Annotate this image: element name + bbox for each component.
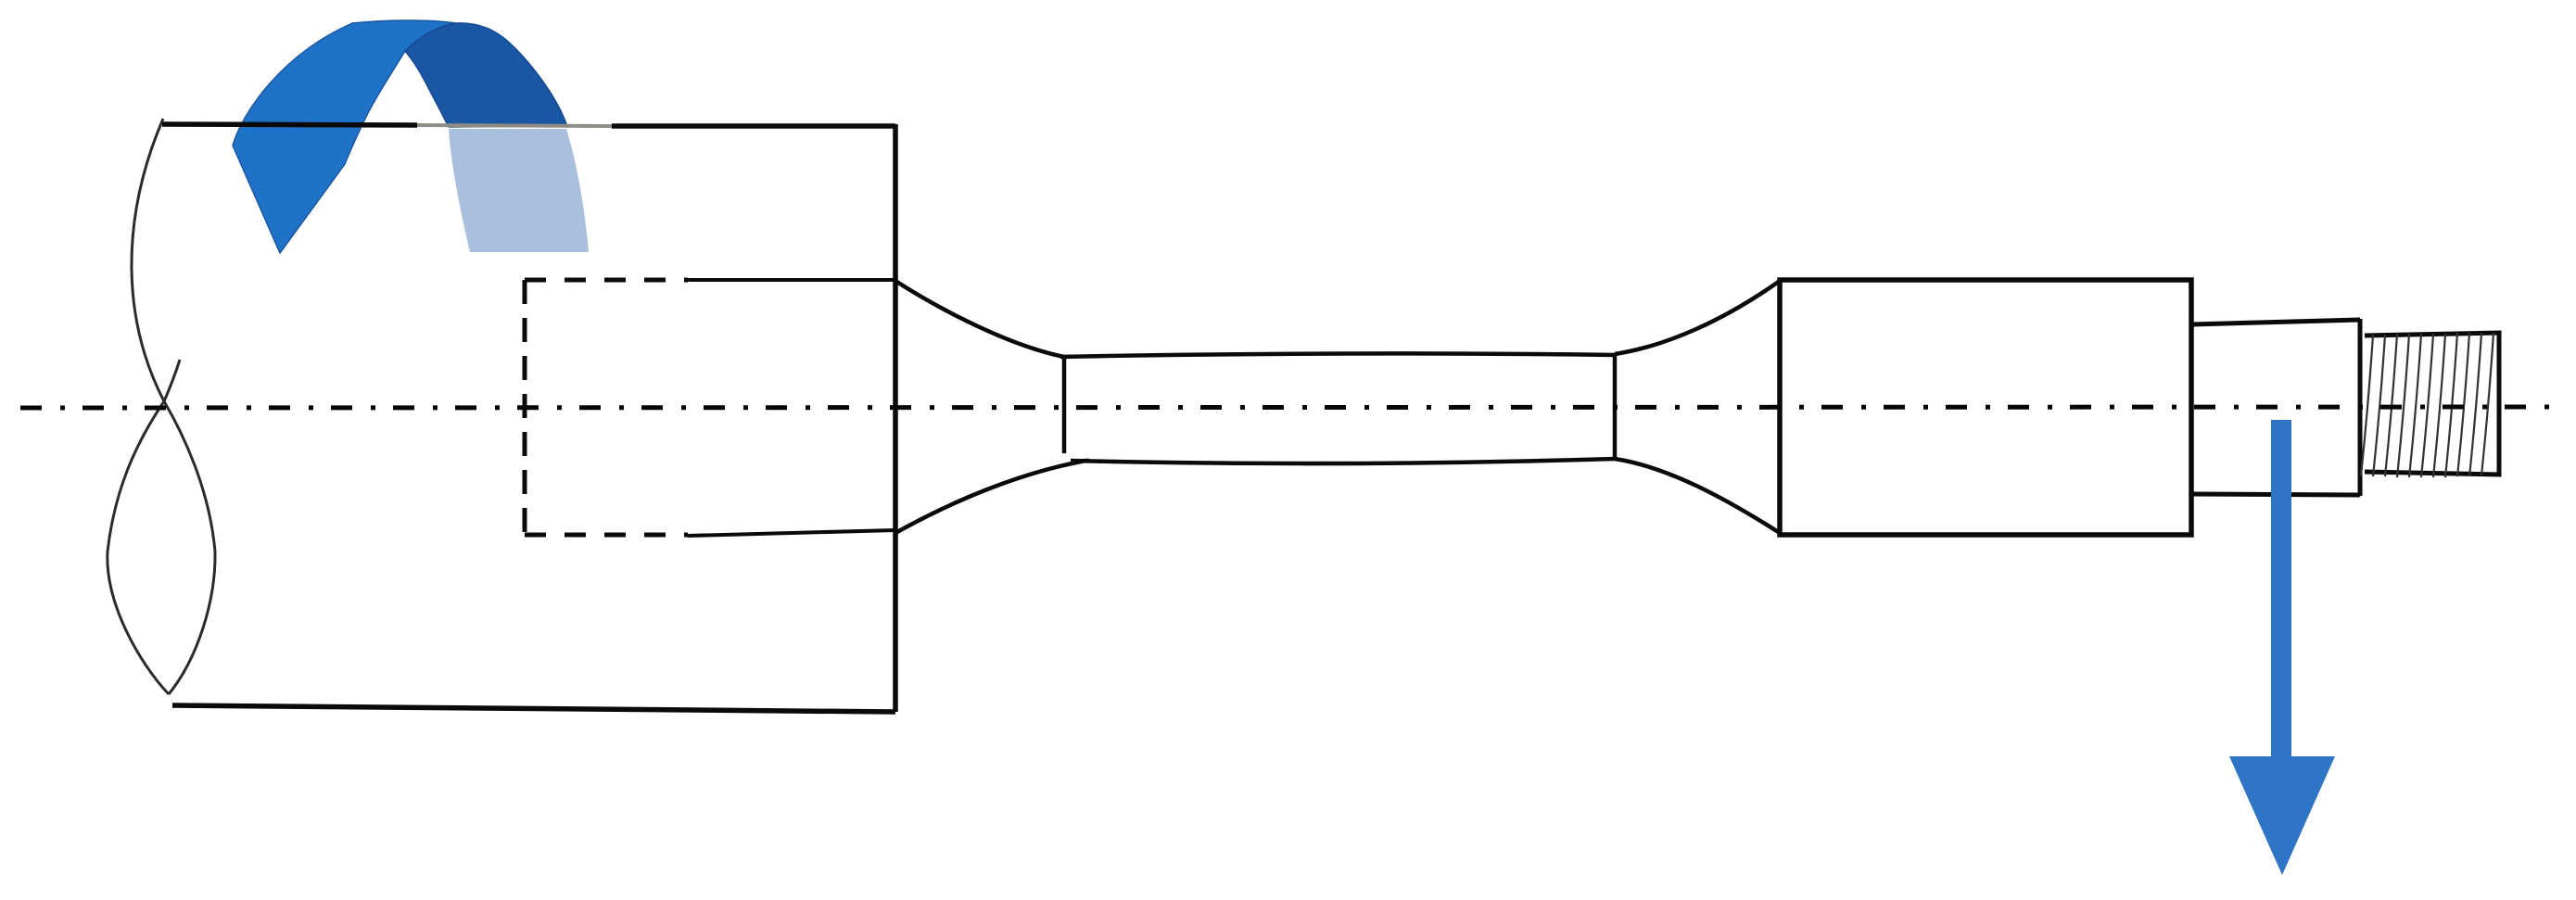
gauge section top line [1060,353,1615,357]
specimen shoulder bottom line (solid, inside chuck) [688,530,895,536]
centerline (dash-dot axis) [20,407,2562,408]
chuck top edge (left black segment) [162,124,417,125]
specimen shoulder top line (solid, inside chuck) [686,278,895,282]
chuck right edge [893,124,898,712]
right fillet bottom curve [1615,459,1780,533]
threaded end outline [2365,333,2499,475]
chuck top edge (gray middle segment over ribbon) [417,125,612,126]
gauge left tick [1062,356,1067,453]
small cylinder top line [2191,320,2360,324]
small cylinder right end edge [2358,319,2363,496]
thread hatch lines [2361,333,2494,477]
gauge right tick [1613,355,1618,459]
hidden grip dashed outline: bottom edge [525,533,688,538]
right fillet top curve [1615,281,1780,354]
hidden grip dashed outline: left edge [523,280,527,535]
chuck break line (inner crossing curve forming lens) [108,360,180,694]
hidden grip dashed outline: top edge [525,278,688,283]
chuck break line (outer S-curve from top corner to bottom tip) [132,119,215,694]
chuck top edge (right black segment) [612,123,895,129]
left fillet bottom curve [895,461,1089,533]
left fillet top curve [895,281,1064,357]
small cylinder bottom line [2191,494,2360,495]
gauge section bottom line [1071,459,1615,463]
rotation ribbon arrow: hidden (light) segment behind shaft [449,129,589,252]
force arrow shaft (downward) [2271,420,2291,757]
grip cylinder rectangle [1780,280,2191,535]
rotation ribbon arrow: bright left segment with pointed tip [233,20,456,253]
force arrow head [2229,756,2335,875]
rotation ribbon arrow: dark right segment above chuck line [405,23,566,127]
chuck bottom edge [172,705,895,712]
